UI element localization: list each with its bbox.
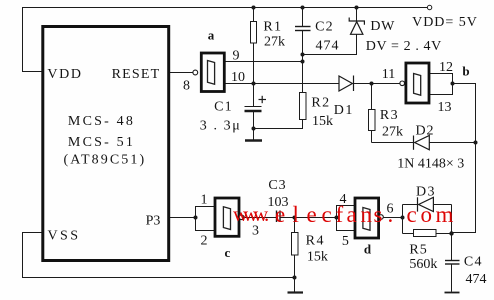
wire DW top stub [356,8,358,22]
svg-text:27k: 27k [382,124,403,139]
svg-text:1N 4148× 3: 1N 4148× 3 [397,157,464,172]
svg-text:1: 1 [201,193,208,208]
svg-text:DV = 2 . 4V: DV = 2 . 4V [366,39,442,54]
svg-text:560k: 560k [409,257,437,272]
wire b out to right rail [452,84,476,233]
inverter gate a [193,53,224,92]
svg-text:D1: D1 [334,103,354,118]
resistor R1 [251,22,257,44]
svg-text:R3: R3 [380,108,399,123]
svg-text:2: 2 [201,234,208,249]
wire node to gate d pins 4 5 [295,217,337,219]
svg-text:8: 8 [183,79,190,94]
wire R1 stubs [253,8,255,22]
ground under R4 [288,291,304,293]
svg-text:474: 474 [466,272,487,287]
capacitor C4 [445,261,460,265]
svg-text:d: d [364,242,372,257]
node D1 R3 [370,82,374,86]
svg-text:RESET: RESET [112,67,161,82]
wire D3 row [403,204,418,206]
wire VSS bottom rail [23,233,295,278]
svg-text:C3: C3 [268,178,286,193]
wire D2 row [372,142,414,144]
capacitor C1 electrolytic [245,107,262,112]
wire DW bottom link [303,34,357,54]
wire R5 row [403,233,414,235]
wire right node vertical [451,205,453,261]
node top rail DW [355,6,359,10]
inverter gate b [400,63,429,103]
svg-text:b: b [462,64,469,79]
resistor R2 [300,93,307,120]
capacitor C3 [277,211,281,223]
svg-text:C4: C4 [464,254,483,269]
wire D1 to gate b [354,83,400,85]
diode D2 [414,136,430,150]
svg-text:a: a [208,28,215,43]
svg-text:474: 474 [316,38,340,53]
wire RESET to gate a [170,72,193,74]
wire gate d out [383,217,402,219]
ground under C4 [445,292,460,294]
C1 plus sign [259,96,267,103]
node b out [451,82,455,86]
svg-text:c: c [225,245,231,260]
wire C1 to R2 bottom [254,120,303,129]
svg-text:R2: R2 [311,95,330,110]
zener DW [349,18,364,35]
node C2-pin9 [301,60,305,64]
node d tie [335,216,339,220]
svg-text:27k: 27k [264,34,285,49]
node C2-DW link [301,53,305,57]
inverter gate c [215,198,244,236]
wire R4 stubs [294,218,296,233]
svg-text:12: 12 [439,60,453,75]
wire C4 bottom stub [451,264,453,292]
wire R3 stubs [371,84,373,110]
svg-text:MCS- 51: MCS- 51 [68,135,135,150]
resistor R3 [369,110,376,131]
svg-text:R4: R4 [306,233,325,248]
VDD terminal [427,5,431,9]
svg-text:10: 10 [231,70,245,85]
svg-text:C1: C1 [214,100,233,115]
svg-text:R5: R5 [409,243,427,258]
node R1 bottom C1 top [252,82,256,86]
wire gate c out to C3 [244,217,276,219]
svg-text:www.: www. [233,202,269,226]
svg-text:3 . 3μ: 3 . 3μ [200,119,242,134]
svg-text:MCS- 48: MCS- 48 [68,114,135,129]
node top rail C2 [301,6,305,10]
node C3 R4 [293,216,297,220]
svg-text:13: 13 [438,100,452,115]
svg-text:11: 11 [382,67,395,82]
node bottom rail R4 [293,276,297,280]
inverter gate d [355,198,383,238]
resistor R4 [292,233,299,256]
svg-text:(AT89C51): (AT89C51) [64,152,147,167]
diode D3 [418,197,434,211]
node top rail R1 [252,6,256,10]
diode D1 [339,76,354,92]
svg-text:15k: 15k [307,249,328,264]
svg-text:9: 9 [233,49,240,64]
wire pin9 [225,61,303,63]
MCU box MCS-48/51 [43,27,169,261]
wire C3 to R4 node [280,217,294,219]
svg-text:D2: D2 [415,123,434,138]
svg-text:15k: 15k [312,114,333,129]
svg-text:D3: D3 [416,184,436,199]
node D2 right [474,141,478,145]
svg-text:DW: DW [370,19,395,34]
ground under C1 [245,139,262,141]
svg-text:VDD: VDD [47,67,82,82]
wire P3 to gate c pins 1 2 [196,207,216,231]
node R5 C4 [449,231,453,235]
wire C2 vertical [302,8,304,27]
svg-text:VDD= 5V: VDD= 5V [412,15,478,30]
resistor R5 [414,230,437,237]
wire top VDD rail [23,8,428,72]
capacitor C2 [295,27,311,31]
svg-text:5: 5 [342,234,349,249]
wire gate b pins 12 13 tie [429,74,453,95]
svg-text:VSS: VSS [48,228,81,243]
wire D3 R5 loop left [402,205,404,234]
node d out [401,216,405,220]
svg-text:C2: C2 [315,20,334,35]
svg-text:R1: R1 [263,19,282,34]
node C1 bottom [252,127,256,131]
svg-text:P3: P3 [146,213,161,228]
wire C1 stubs [253,84,255,107]
node P3 tie [194,216,198,220]
wire pin10 D1 row [225,83,340,85]
